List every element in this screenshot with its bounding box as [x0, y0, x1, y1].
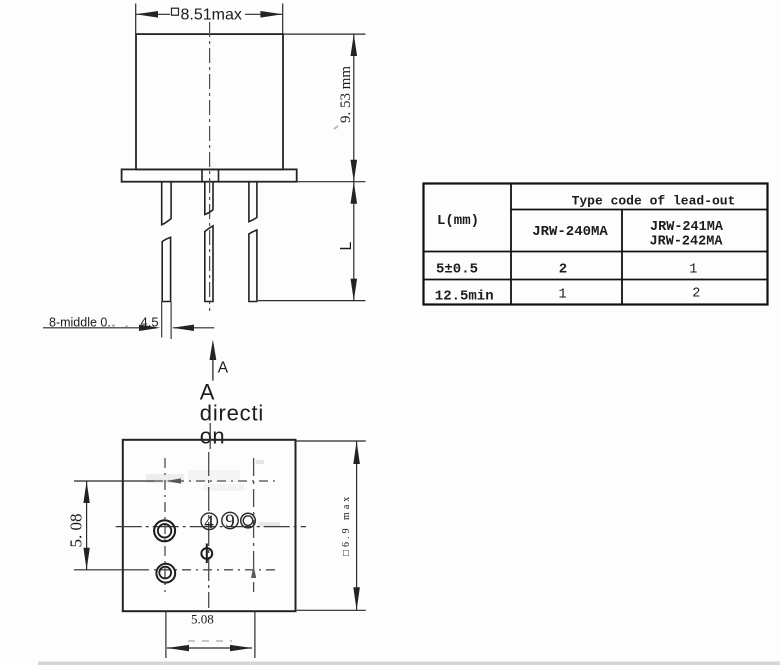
svg-text:4: 4	[204, 512, 214, 533]
phi symbol	[201, 548, 212, 559]
faint mark below 9.53 text	[334, 126, 338, 129]
dimension 5.08 bottom: left arrowhead	[167, 645, 189, 651]
dimension 6.9max: bottom arrowhead	[353, 587, 360, 610]
vertical center line right column	[253, 458, 255, 592]
svg-text:5.08: 5.08	[191, 612, 214, 627]
vertical center line middle column	[208, 452, 210, 608]
lead 2 upper segment	[205, 182, 213, 215]
dimension 5.08 left: top arrowhead	[83, 481, 89, 503]
svg-text:JRW-242MA: JRW-242MA	[650, 235, 724, 250]
faint arrowhead on top row line	[166, 478, 181, 483]
dimension 6.9max right: bottom extension line	[297, 609, 366, 611]
svg-text:JRW-240MA: JRW-240MA	[532, 224, 608, 240]
pin hole 2 (double circle)	[156, 564, 175, 583]
lead 1 lower segment	[162, 237, 170, 301]
svg-text:JRW-241MA: JRW-241MA	[650, 220, 724, 235]
dimension 4.5: right dimension line	[173, 327, 214, 329]
dimension 8.51max: right arrowhead	[260, 11, 282, 18]
faint dots after note	[112, 325, 115, 327]
dimension L: dimension line	[353, 182, 355, 301]
vertical center line left column	[164, 458, 166, 592]
table outer border	[424, 184, 768, 305]
dimension 8.51max: dimension line	[136, 13, 170, 15]
pin number 4 (circled)	[201, 513, 217, 529]
svg-text:L(mm): L(mm)	[437, 213, 479, 229]
pin hole 1 (double circle)	[154, 520, 175, 541]
extension line can top to 9.53 dim	[283, 33, 366, 35]
extension line flange bottom to dims	[297, 181, 366, 183]
dimension 5.08 bottom: dimension line	[167, 647, 252, 649]
svg-text:L: L	[338, 242, 355, 251]
dimension 5.08 bottom: right arrowhead	[230, 645, 252, 651]
dimension 5.08 left: bottom arrowhead	[83, 548, 89, 570]
dimension 8.51max: right extension line	[282, 4, 284, 35]
dimension 4.5: right-pointing arrowhead	[139, 325, 161, 331]
lead 3 lower segment	[249, 230, 257, 302]
vertical center line	[209, 22, 211, 311]
table row line under Type code header	[511, 209, 768, 211]
view arrow A: shaft	[212, 359, 214, 381]
svg-text:1: 1	[689, 263, 697, 278]
dimension 5.08 left: dimension line	[86, 481, 88, 570]
dimension 9.53mm: dimension line	[353, 34, 355, 182]
lead 3 upper segment	[249, 182, 257, 222]
flange slot line right	[218, 169, 220, 181]
svg-text:8-middle 0.: 8-middle 0.	[49, 315, 111, 329]
svg-text:4.5: 4.5	[141, 314, 159, 329]
dimension 4.5: left-pointing arrowhead	[172, 325, 194, 331]
horizontal line bottom row (5.08 lower extension)	[74, 569, 140, 571]
pin number 9 (circled)	[222, 512, 238, 528]
lead 1 upper segment	[162, 182, 171, 225]
dimension 9.53mm: bottom arrowhead	[351, 160, 358, 182]
can body (side view)	[136, 34, 283, 169]
faint up arrowhead on right column line	[251, 566, 256, 579]
lead 2 lower segment	[205, 226, 213, 302]
svg-text:5. 08: 5. 08	[67, 514, 86, 548]
faint dashes above bottom dimension line	[188, 640, 232, 642]
table column line 1	[510, 184, 512, 305]
svg-text:□6.9 max: □6.9 max	[341, 494, 352, 556]
svg-text:2: 2	[692, 287, 700, 302]
svg-text:directi: directi	[200, 401, 264, 426]
bottom gray strip	[38, 662, 780, 665]
dimension L: top arrowhead	[351, 182, 358, 204]
mounting flange	[122, 169, 297, 181]
dimension 6.9max right: top extension line	[296, 440, 366, 442]
table row line under JRW header	[424, 251, 768, 253]
svg-text:1: 1	[558, 288, 566, 303]
svg-text:8.51max: 8.51max	[181, 7, 242, 24]
svg-text:5±0.5: 5±0.5	[436, 262, 478, 278]
dimension 8.51max: left arrowhead	[136, 11, 158, 18]
svg-text:Type code of lead-out: Type code of lead-out	[572, 194, 736, 209]
view arrow A: arrowhead	[210, 340, 217, 361]
bottom view outline square	[123, 440, 296, 611]
dimension 8.51max: left extension line	[135, 4, 137, 35]
dimension 5.08 bottom: left extension line	[165, 611, 167, 658]
flange slot line left	[201, 169, 203, 181]
dimension 8.51max: square symbol	[172, 8, 179, 15]
table column line 2	[621, 210, 623, 305]
dimension L: bottom arrowhead	[351, 279, 358, 301]
svg-text:9. 53 mm: 9. 53 mm	[338, 66, 354, 123]
svg-text:2: 2	[559, 262, 567, 278]
svg-text:12.5min: 12.5min	[435, 289, 494, 305]
dimension 5.08 bottom: right extension line	[254, 611, 256, 658]
dimension 9.53mm: top arrowhead	[351, 34, 358, 56]
svg-text:9: 9	[225, 511, 235, 532]
horizontal line top row (5.08 upper extension)	[74, 480, 154, 482]
faint smudge marks upper square	[146, 474, 184, 483]
extension line below lead 1 left edge	[161, 302, 163, 338]
pin hole 3 (small double circle)	[241, 513, 256, 528]
table row line under 5±0.5 row	[424, 279, 768, 281]
dimension 6.9max: top arrowhead	[353, 441, 360, 464]
extension line lead bottom to L dim	[258, 300, 366, 302]
svg-text:on: on	[200, 424, 225, 449]
dimension 6.9max right: dimension line	[356, 441, 358, 610]
center line tick above square	[209, 423, 211, 449]
extension line below lead 1 right edge	[170, 302, 172, 340]
svg-text:A: A	[218, 360, 229, 377]
horizontal center line middle row	[116, 526, 306, 528]
dimension 4.5: left dimension line	[43, 327, 153, 329]
